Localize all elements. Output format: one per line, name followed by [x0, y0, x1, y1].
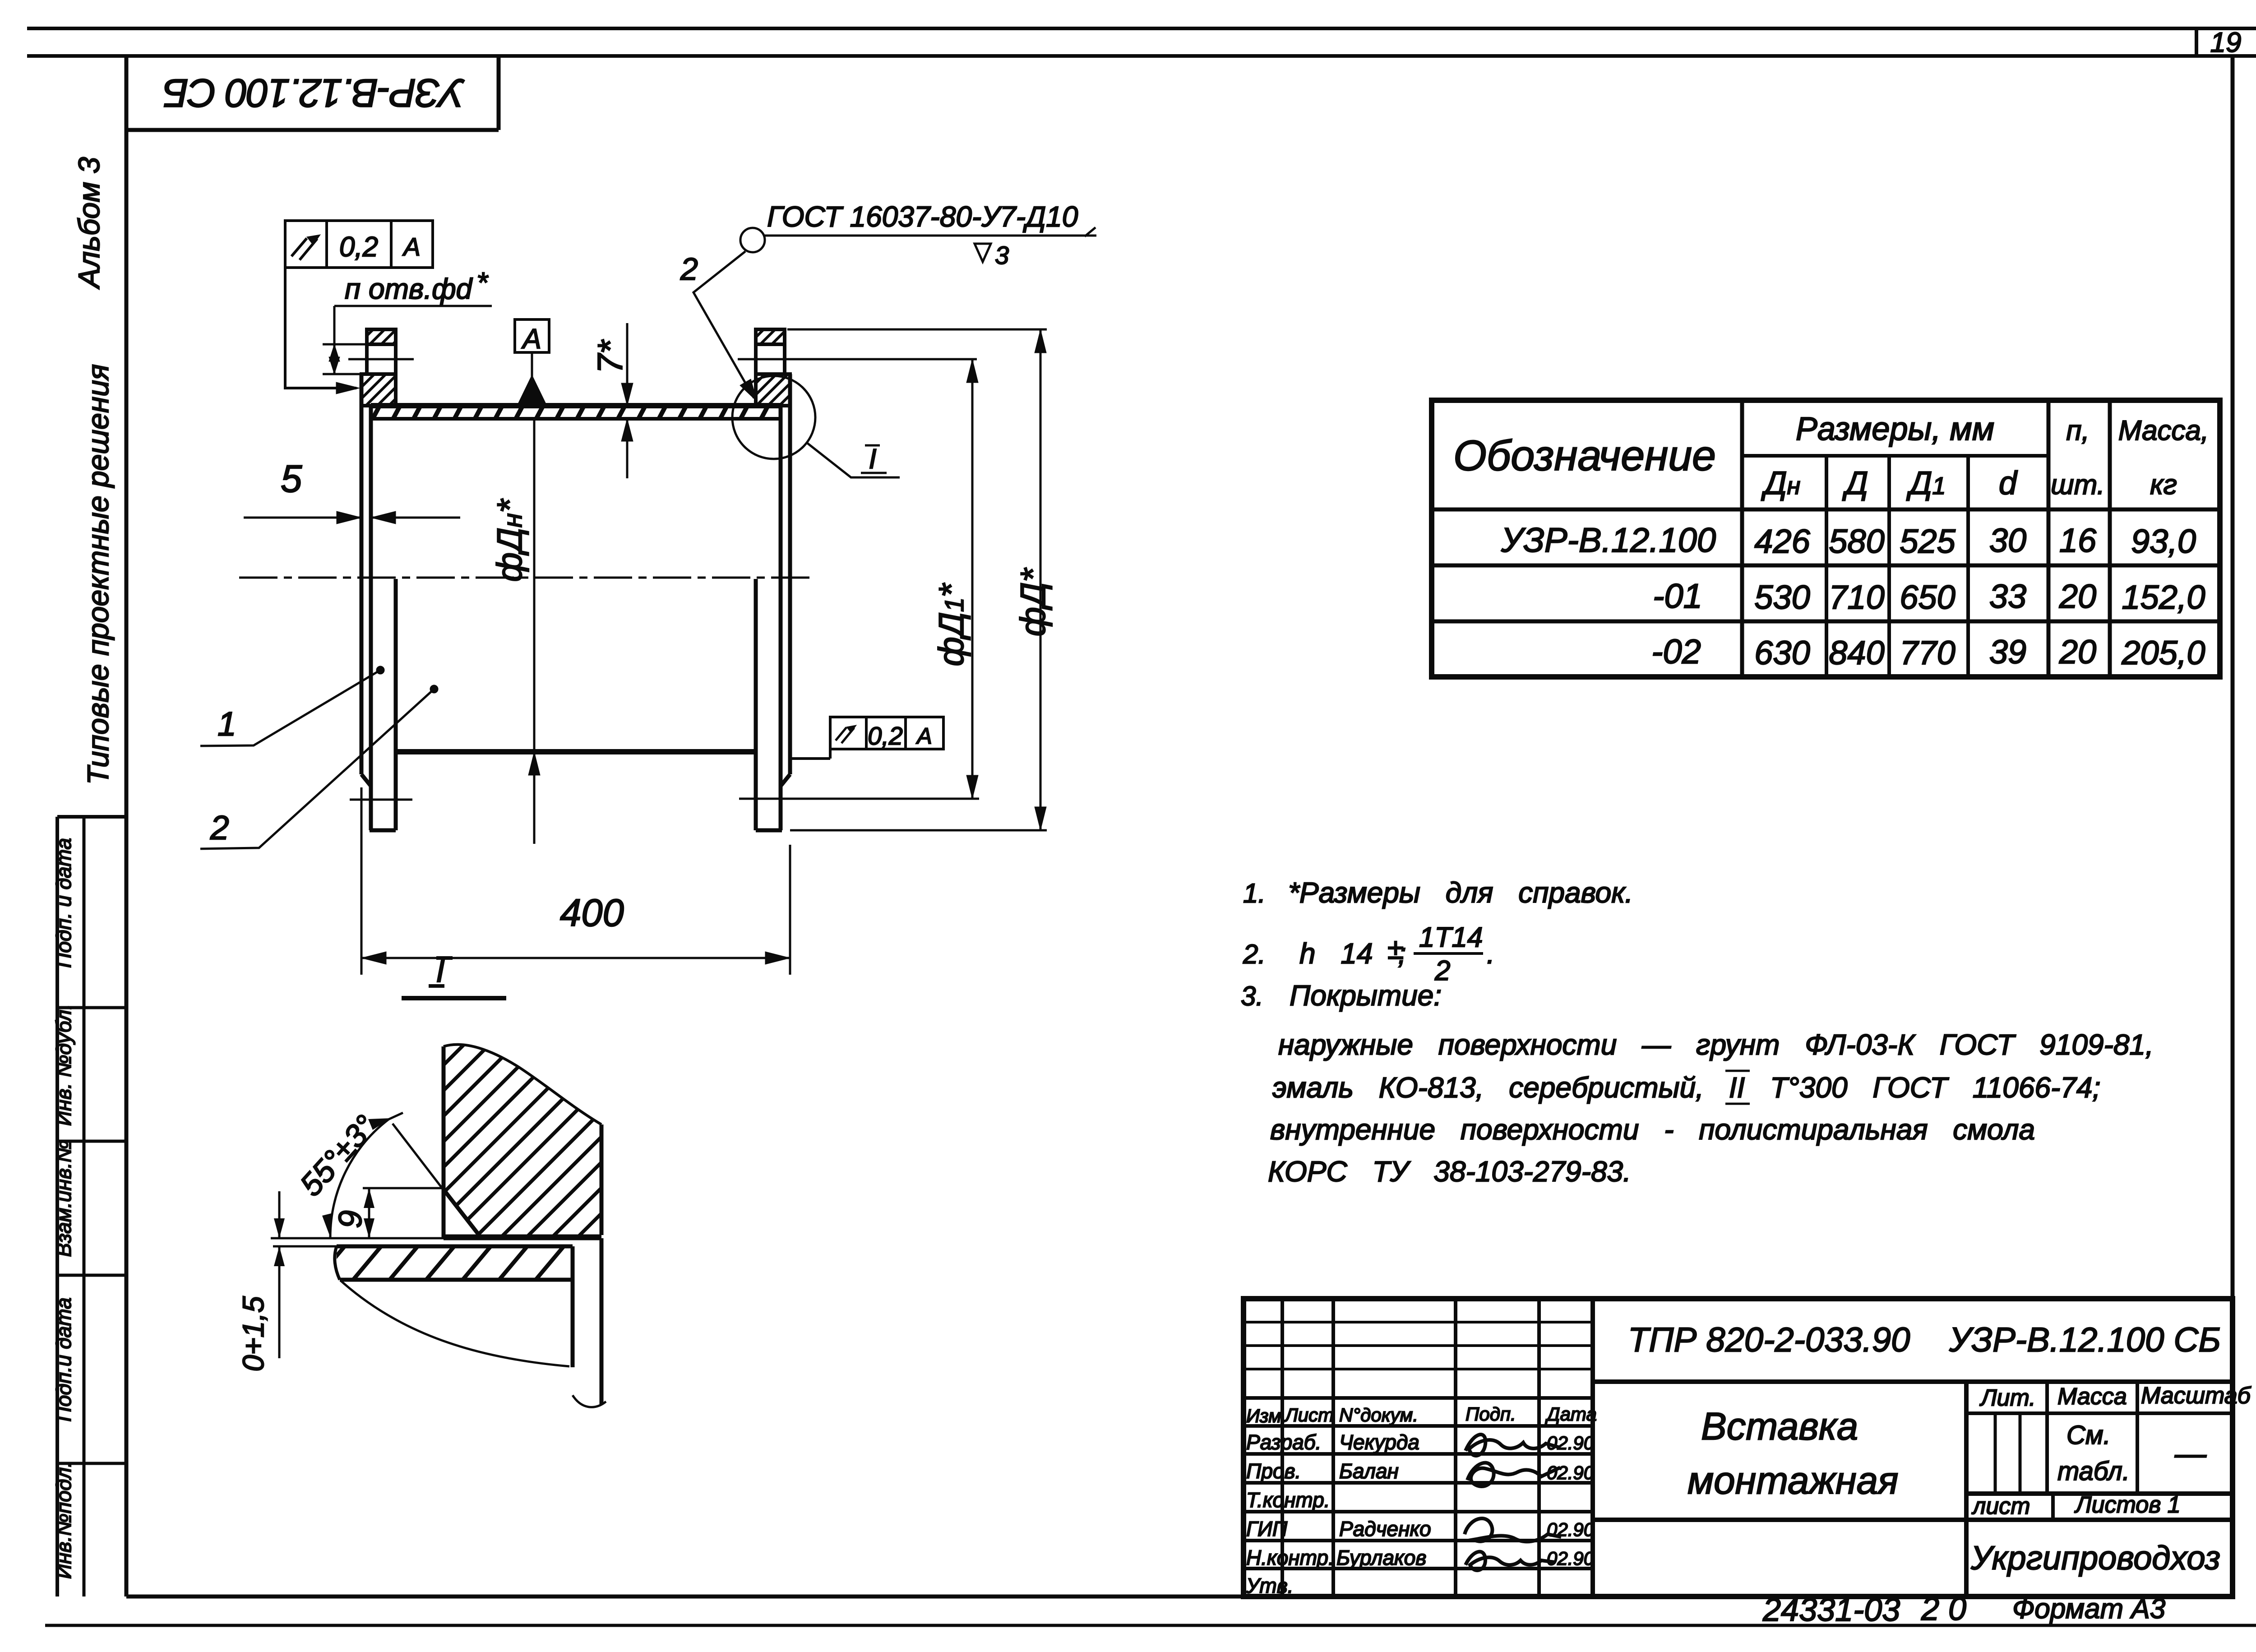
svg-text:1: 1 [217, 705, 236, 743]
svg-text:Радченко: Радченко [1339, 1517, 1431, 1541]
svg-text:2.: 2. [1243, 939, 1266, 969]
svg-text:ТПР 820-2-033.90: ТПР 820-2-033.90 [1628, 1321, 1910, 1359]
svg-text:205,0: 205,0 [2121, 634, 2205, 671]
svg-text:426: 426 [1754, 523, 1810, 560]
svg-text:А: А [402, 232, 420, 261]
svg-text:Балан: Балан [1339, 1459, 1399, 1483]
svg-text:20: 20 [2059, 578, 2096, 615]
svg-text:580: 580 [1829, 523, 1884, 560]
svg-text:Разраб.: Разраб. [1246, 1430, 1321, 1454]
svg-text:*: * [476, 266, 489, 299]
svg-text:710: 710 [1829, 578, 1884, 616]
svg-text:02.90: 02.90 [1547, 1432, 1595, 1453]
svg-text:УЗР-В.12.100 СБ: УЗР-В.12.100 СБ [1949, 1321, 2221, 1359]
svg-text:30: 30 [1989, 522, 2026, 559]
svg-text:770: 770 [1900, 634, 1955, 671]
svg-text:Подп.: Подп. [1465, 1403, 1516, 1425]
svg-text:5: 5 [281, 458, 302, 500]
svg-text:Пров.: Пров. [1246, 1459, 1301, 1483]
svg-text:19: 19 [2210, 27, 2242, 58]
svg-text:кг: кг [2150, 469, 2177, 500]
svg-text:Взам.инв.№: Взам.инв.№ [52, 1140, 75, 1257]
svg-text:Т.контр.: Т.контр. [1246, 1488, 1330, 1512]
svg-text:20: 20 [2059, 633, 2096, 671]
svg-text:Д: Д [1842, 465, 1868, 501]
svg-text:39: 39 [1989, 633, 2026, 671]
svg-text:Типовые проектные решения: Типовые проектные решения [81, 364, 115, 785]
svg-text:фДн*: фДн* [490, 498, 529, 582]
svg-text:Масса: Масса [2057, 1384, 2127, 1410]
svg-text:Н.контр.: Н.контр. [1246, 1546, 1334, 1569]
svg-text:лист: лист [1971, 1493, 2030, 1519]
svg-text:3.: 3. [1241, 981, 1263, 1011]
svg-text:УЗР-В.12.100: УЗР-В.12.100 [1501, 521, 1716, 560]
svg-text:1Т14: 1Т14 [1419, 922, 1483, 953]
svg-text:п отв.фd: п отв.фd [345, 273, 473, 305]
svg-text:530: 530 [1754, 578, 1810, 616]
svg-text:840: 840 [1829, 634, 1884, 671]
svg-text:Листов 1: Листов 1 [2074, 1492, 2181, 1518]
svg-text:400: 400 [560, 892, 624, 935]
svg-text:I: I [436, 953, 445, 989]
svg-text:I: I [869, 444, 876, 475]
svg-text:Масштаб: Масштаб [2141, 1383, 2251, 1409]
svg-text:монтажная: монтажная [1687, 1459, 1898, 1502]
svg-text:±: ± [1387, 932, 1404, 965]
svg-text:630: 630 [1754, 634, 1810, 671]
svg-text:А: А [915, 723, 932, 749]
svg-text:525: 525 [1900, 523, 1956, 560]
svg-text:См.: См. [2066, 1421, 2111, 1450]
svg-text:внутренние поверхности - полис: внутренние поверхности - полистиральная … [1270, 1113, 2035, 1146]
svg-text:Укргипроводхоз: Укргипроводхоз [1970, 1539, 2220, 1577]
svg-text:Лит.: Лит. [1979, 1385, 2036, 1411]
svg-text:*Размеры для справок.: *Размеры для справок. [1288, 876, 1633, 909]
svg-text:Инв. №дубл.: Инв. №дубл. [52, 1004, 75, 1126]
svg-text:Изм.: Изм. [1246, 1405, 1287, 1426]
svg-text:фД*: фД* [1013, 567, 1053, 636]
svg-text:650: 650 [1900, 578, 1955, 616]
svg-text:02.90: 02.90 [1547, 1548, 1595, 1569]
svg-text:Покрытие:: Покрытие: [1290, 979, 1442, 1012]
svg-text:3: 3 [995, 241, 1009, 269]
svg-text:ГОСТ 16037-80-У7-Д10: ГОСТ 16037-80-У7-Д10 [767, 200, 1078, 233]
svg-text:0,2: 0,2 [868, 722, 903, 750]
svg-text:Подп.и дата: Подп.и дата [52, 1297, 75, 1421]
svg-text:1.: 1. [1243, 878, 1266, 908]
svg-text:-02: -02 [1651, 633, 1701, 671]
svg-text:УЗР-В.12.100 СБ: УЗР-В.12.100 СБ [164, 71, 465, 116]
svg-text:0+1,5: 0+1,5 [236, 1296, 270, 1371]
svg-text:.: . [1487, 937, 1495, 970]
svg-text:9: 9 [333, 1210, 369, 1228]
svg-text:N°докум.: N°докум. [1339, 1404, 1418, 1425]
svg-text:Инв.№подл.: Инв.№подл. [52, 1462, 75, 1579]
svg-text:эмаль КО-813, серебристый, II: эмаль КО-813, серебристый, II Т°300 ГОСТ… [1272, 1071, 2100, 1104]
svg-text:93,0: 93,0 [2131, 523, 2196, 560]
svg-text:Вставка: Вставка [1701, 1405, 1858, 1448]
svg-text:Альбом 3: Альбом 3 [72, 157, 106, 290]
svg-text:Обозначение: Обозначение [1453, 432, 1716, 480]
svg-text:А: А [521, 324, 541, 355]
svg-text:0,2: 0,2 [339, 231, 378, 263]
svg-text:п,: п, [2066, 415, 2089, 446]
svg-text:ГИП: ГИП [1246, 1517, 1288, 1541]
svg-text:фД1*: фД1* [931, 583, 971, 666]
svg-text:16: 16 [2059, 522, 2097, 559]
svg-text:КОРС ТУ 38-103-279-83.: КОРС ТУ 38-103-279-83. [1268, 1155, 1631, 1188]
svg-text:2: 2 [680, 251, 698, 287]
svg-text:Размеры, мм: Размеры, мм [1796, 411, 1994, 447]
svg-text:Утв.: Утв. [1246, 1574, 1294, 1597]
svg-text:-01: -01 [1653, 577, 1702, 615]
svg-text:33: 33 [1989, 578, 2026, 615]
svg-text:Лист: Лист [1284, 1404, 1334, 1425]
svg-text:02.90: 02.90 [1547, 1462, 1595, 1483]
svg-text:Чекурда: Чекурда [1339, 1430, 1419, 1454]
svg-text:Дата: Дата [1545, 1403, 1597, 1425]
svg-text:d: d [1999, 465, 2018, 501]
svg-text:Бурлаков: Бурлаков [1336, 1546, 1426, 1569]
svg-text:152,0: 152,0 [2122, 578, 2205, 616]
svg-text:Подп. и дата: Подп. и дата [52, 838, 75, 968]
svg-text:—: — [2174, 1436, 2207, 1471]
svg-text:шт.: шт. [2051, 469, 2105, 500]
svg-text:наружные поверхности — грунт Ф: наружные поверхности — грунт ФЛ-03-К ГОС… [1278, 1028, 2154, 1061]
svg-text:2: 2 [210, 809, 229, 847]
svg-text:Масса,: Масса, [2118, 415, 2209, 446]
svg-text:табл.: табл. [2057, 1457, 2130, 1486]
svg-text:7*: 7* [590, 339, 630, 373]
